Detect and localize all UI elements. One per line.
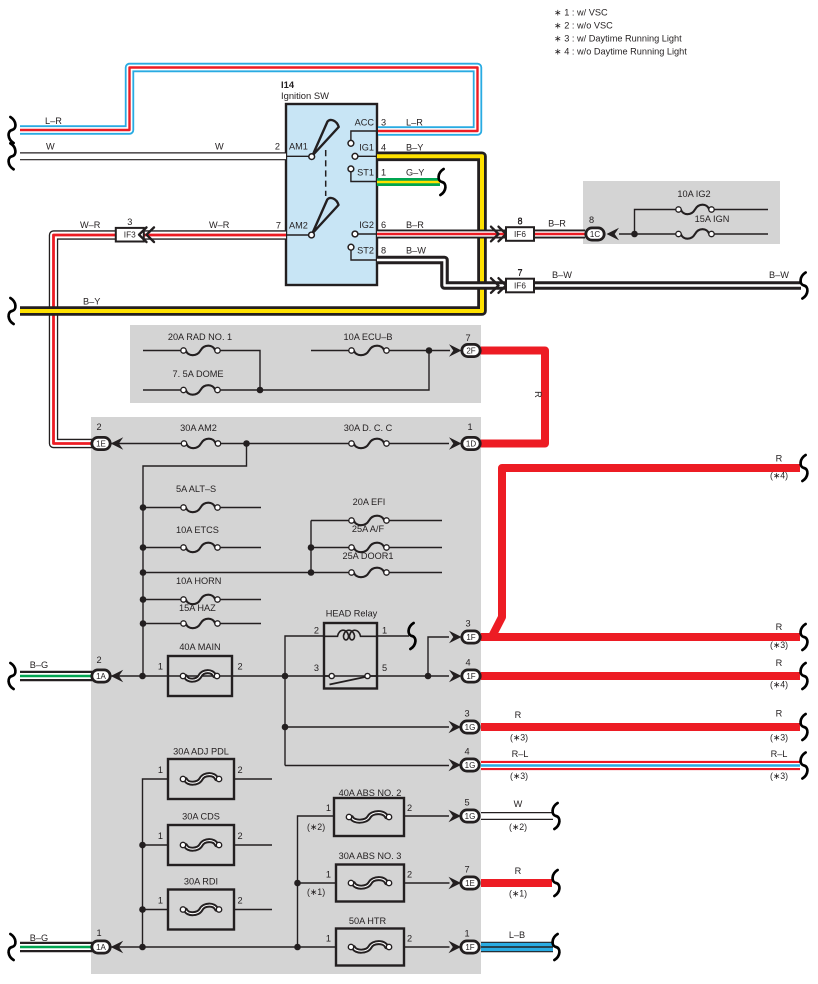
wire branch from AM2 fuse row down to fuse bus bbox=[143, 444, 247, 677]
ignition SW mechanical link (dashed) bbox=[325, 150, 327, 196]
junction ABS bus NO.3 bbox=[294, 880, 301, 887]
svg-text:1G: 1G bbox=[465, 761, 476, 770]
svg-text:1F: 1F bbox=[466, 633, 475, 642]
svg-text:7: 7 bbox=[276, 221, 281, 231]
svg-text:∗ 3 : w/ Daytime Running Light: ∗ 3 : w/ Daytime Running Light bbox=[554, 34, 682, 44]
svg-text:B–Y: B–Y bbox=[83, 297, 100, 307]
svg-text:1: 1 bbox=[382, 626, 387, 636]
svg-text:1D: 1D bbox=[466, 439, 476, 448]
wire R from connector 1G pin 3 to right edge (*3) bbox=[481, 723, 800, 731]
wire L-R from left edge to ACC pin 3 bbox=[20, 68, 478, 132]
junction bus bottom row bbox=[139, 944, 146, 951]
svg-text:4: 4 bbox=[465, 658, 470, 668]
arrow into 1G pin 3 bbox=[449, 721, 462, 733]
svg-text:10A IG2: 10A IG2 bbox=[677, 189, 710, 199]
svg-text:1: 1 bbox=[326, 934, 331, 944]
svg-text:B–W: B–W bbox=[406, 246, 426, 256]
svg-text:(∗2): (∗2) bbox=[509, 822, 527, 832]
svg-text:R: R bbox=[515, 866, 522, 876]
continuation mark R (*4) right bbox=[801, 455, 808, 481]
svg-text:1: 1 bbox=[158, 765, 163, 775]
svg-text:8: 8 bbox=[381, 246, 386, 256]
svg-text:(∗4): (∗4) bbox=[770, 471, 788, 481]
junction bus at 40A MAIN row bbox=[139, 673, 146, 680]
svg-text:3: 3 bbox=[465, 619, 470, 629]
svg-text:1: 1 bbox=[158, 662, 163, 672]
svg-text:R: R bbox=[533, 391, 543, 398]
continuation mark R (*4) lower right bbox=[801, 663, 808, 689]
junction ABS bus bottom bbox=[294, 944, 301, 951]
connector 1A pin 2 bbox=[92, 670, 110, 682]
continuation mark R-L right bbox=[801, 753, 808, 779]
svg-text:IG2: IG2 bbox=[359, 220, 374, 230]
fuse 5A ALT-S bbox=[181, 503, 220, 512]
wire DOME row bbox=[143, 351, 429, 391]
ignition SW rotor lever AM2 bbox=[312, 198, 338, 233]
wire 5A ALT-S row bbox=[143, 507, 261, 509]
wire 10A ETCS row bbox=[143, 547, 261, 549]
svg-text:1G: 1G bbox=[465, 723, 476, 732]
svg-text:B–W: B–W bbox=[552, 270, 572, 280]
HEAD relay contact blade bbox=[324, 676, 377, 685]
fuse 30A D.C.C bbox=[349, 439, 389, 448]
svg-text:B–R: B–R bbox=[548, 219, 566, 229]
svg-text:W: W bbox=[46, 142, 55, 152]
ignition SW ST2 contact stub bbox=[351, 250, 377, 260]
ignition SW ST2 contact bbox=[348, 244, 354, 250]
continuation mark B-Y left bbox=[9, 298, 16, 324]
ignition SW ST1 contact stub bbox=[351, 172, 377, 182]
relay HEAD Relay body bbox=[324, 623, 377, 689]
relay block box (10A IG2 / 15A IGN) bbox=[583, 181, 780, 244]
chevron into IF3 bbox=[139, 227, 154, 242]
svg-text:1F: 1F bbox=[466, 672, 475, 681]
junction 1G pin 3 branch bbox=[282, 724, 289, 731]
wire R from connector 1F pin 3 to right edge (*3) bbox=[481, 633, 800, 641]
fuse 15A HAZ bbox=[181, 619, 220, 628]
svg-text:W–R: W–R bbox=[80, 220, 101, 230]
wire EFI/AF/DOOR1 riser bbox=[310, 521, 312, 573]
wire R from connector 2F to connector 1D bbox=[481, 351, 545, 444]
connector 1D bbox=[462, 437, 480, 449]
svg-text:AM1: AM1 bbox=[289, 142, 308, 152]
wire B-G from left edge to connector 1A pin 2 bbox=[20, 671, 93, 682]
svg-text:8: 8 bbox=[517, 216, 522, 226]
junction relay pin 2 feed bbox=[282, 673, 289, 680]
connector 1C bbox=[586, 228, 604, 240]
svg-text:ST2: ST2 bbox=[357, 246, 374, 256]
svg-text:ST1: ST1 bbox=[357, 168, 374, 178]
svg-text:∗ 1 : w/ VSC: ∗ 1 : w/ VSC bbox=[554, 8, 608, 18]
ignition SW rotor lever AM1 bbox=[313, 120, 339, 155]
wire 40A ABS NO.2 output to 1G pin 5 bbox=[404, 815, 449, 817]
ignition SW AM1 contact bbox=[309, 154, 315, 160]
fuse 10A HORN bbox=[181, 595, 220, 604]
continuation mark R (*3) right bbox=[801, 624, 808, 650]
svg-text:1E: 1E bbox=[465, 879, 475, 888]
continuation mark R (*3) 1G right bbox=[801, 714, 808, 740]
fuse 10A IG2 bbox=[676, 205, 714, 214]
ignition SW ACC contact bbox=[348, 140, 354, 146]
wire R branch up to right edge (*4) bbox=[493, 468, 801, 636]
junction AM2 row bbox=[243, 440, 250, 447]
connector 1G pin 5 bbox=[461, 810, 479, 822]
svg-text:2: 2 bbox=[238, 831, 243, 841]
svg-text:3: 3 bbox=[127, 217, 132, 227]
wire B-G from left edge to connector 1A pin 1 bbox=[20, 942, 93, 953]
ignition SW AM1 contact stub bbox=[286, 155, 309, 157]
svg-text:IF6: IF6 bbox=[514, 229, 526, 239]
continuation mark W left bbox=[9, 143, 16, 169]
svg-text:30A ADJ PDL: 30A ADJ PDL bbox=[173, 747, 229, 757]
svg-text:R: R bbox=[776, 454, 783, 464]
svg-text:40A ABS NO. 2: 40A ABS NO. 2 bbox=[339, 788, 402, 798]
arrow into 1D bbox=[449, 437, 462, 449]
fusible link 50A HTR bbox=[336, 929, 404, 966]
ignition SW ACC contact stub bbox=[351, 131, 377, 140]
fusible link 30A RDI bbox=[168, 890, 234, 930]
fuse 7.5A DOME bbox=[181, 385, 220, 394]
wire HEAD relay pin 1 output bbox=[377, 635, 409, 637]
junction riser DOOR1 bbox=[308, 569, 315, 576]
svg-text:R–L: R–L bbox=[771, 749, 788, 759]
wire 30A ADJ PDL output stub bbox=[234, 778, 272, 780]
svg-text:(∗1): (∗1) bbox=[307, 887, 325, 897]
chevron into IF6 (B-W) bbox=[491, 278, 506, 293]
svg-text:R: R bbox=[776, 622, 783, 632]
arrow into 2F bbox=[449, 344, 462, 356]
HEAD relay contact pin 5 bbox=[365, 673, 370, 678]
svg-text:R: R bbox=[776, 658, 783, 668]
svg-text:W: W bbox=[215, 142, 224, 152]
junction at 1C branch bbox=[631, 231, 638, 238]
svg-text:2: 2 bbox=[407, 803, 412, 813]
svg-text:2F: 2F bbox=[466, 346, 475, 355]
fuse 15A IGN bbox=[676, 229, 714, 238]
svg-text:IF6: IF6 bbox=[514, 281, 526, 291]
arrow into 1F pin 1 bbox=[449, 941, 462, 953]
chevron into IF6 (B-R) bbox=[491, 227, 506, 242]
svg-text:4: 4 bbox=[464, 747, 469, 757]
junction bus ETCS bbox=[140, 544, 147, 551]
junction DOME/RAD bbox=[257, 387, 264, 394]
svg-text:L–B: L–B bbox=[509, 930, 525, 940]
connector IF6 (B-R row) bbox=[506, 217, 534, 241]
arrow out of 1C bbox=[607, 228, 620, 240]
continuation mark L-B bbox=[553, 934, 560, 960]
connector 1E pin 2 bbox=[92, 437, 110, 449]
svg-text:50A HTR: 50A HTR bbox=[349, 916, 387, 926]
svg-text:(∗3): (∗3) bbox=[770, 733, 788, 743]
svg-text:(∗1): (∗1) bbox=[509, 889, 527, 899]
wire 25A A/F row bbox=[311, 547, 442, 549]
connector 2F bbox=[462, 344, 480, 356]
wire relay pin 5 branch up to 1F pin 3 bbox=[428, 637, 449, 676]
wire 1E to 1D row (30A AM2 / 30A D.C.C) bbox=[111, 443, 449, 445]
fusible link 30A CDS bbox=[168, 825, 234, 865]
svg-text:B–G: B–G bbox=[30, 660, 48, 670]
svg-text:2: 2 bbox=[238, 662, 243, 672]
wire W from connector 1G pin 5 bbox=[481, 812, 553, 820]
svg-text:L–R: L–R bbox=[45, 116, 62, 126]
svg-text:30A CDS: 30A CDS bbox=[182, 812, 220, 822]
wire 40A ABS NO.2 feed bbox=[298, 816, 335, 947]
connector 1E pin 7 bbox=[461, 877, 479, 889]
fuse 20A EFI bbox=[349, 516, 389, 525]
continuation mark B-W right bbox=[801, 273, 808, 299]
svg-text:7: 7 bbox=[517, 268, 522, 278]
arrow out of 1A pin 1 bbox=[111, 941, 124, 953]
svg-text:B–G: B–G bbox=[30, 933, 48, 943]
svg-text:1: 1 bbox=[158, 831, 163, 841]
junction relay output bbox=[425, 673, 432, 680]
arrow out of 1E pin 2 bbox=[111, 437, 124, 449]
ignition SW AM2 contact bbox=[309, 232, 315, 238]
fusible link 40A MAIN bbox=[168, 656, 232, 696]
fuse 10A ETCS bbox=[181, 543, 220, 552]
wire B-Y from IG1 pin 4 to left edge bbox=[20, 156, 482, 311]
svg-text:25A A/F: 25A A/F bbox=[352, 524, 385, 534]
svg-text:1A: 1A bbox=[96, 672, 106, 681]
wire 30A ABS NO.3 row bbox=[298, 882, 450, 884]
junction bus CDS bbox=[139, 842, 146, 849]
svg-text:L–R: L–R bbox=[406, 118, 423, 128]
svg-text:∗ 4 : w/o Daytime Running Ligh: ∗ 4 : w/o Daytime Running Light bbox=[554, 47, 687, 57]
svg-text:5: 5 bbox=[464, 798, 469, 808]
svg-text:5: 5 bbox=[382, 663, 387, 673]
fusible link 30A ABS NO.3 bbox=[336, 865, 404, 902]
svg-text:ACC: ACC bbox=[355, 118, 375, 128]
fuse 10A ECU-B bbox=[349, 346, 389, 355]
ignition SW AM2 contact stub bbox=[286, 234, 309, 236]
svg-text:1E: 1E bbox=[96, 439, 106, 448]
wire R from connector 1F pin 4 to right edge (*4) bbox=[481, 672, 800, 680]
relay block box (RAD / DOME / ECU-B fuses) bbox=[130, 325, 481, 403]
fuse 30A AM2 bbox=[181, 439, 220, 448]
svg-text:7. 5A DOME: 7. 5A DOME bbox=[172, 369, 223, 379]
svg-text:R–L: R–L bbox=[512, 749, 529, 759]
svg-text:30A AM2: 30A AM2 bbox=[180, 423, 217, 433]
arrow into 1G pin 5 bbox=[449, 810, 462, 822]
svg-text:(∗3): (∗3) bbox=[770, 640, 788, 650]
wire ECU-B row to 2F bbox=[311, 350, 450, 352]
svg-text:W: W bbox=[514, 799, 523, 809]
wire 1A to HEAD relay row (40A MAIN) bbox=[111, 675, 449, 677]
wire 20A EFI row bbox=[311, 520, 442, 522]
svg-text:20A EFI: 20A EFI bbox=[353, 497, 386, 507]
svg-text:1: 1 bbox=[467, 422, 472, 432]
junction bus DOOR1 bbox=[140, 569, 147, 576]
connector 1F pin 1 bbox=[461, 941, 479, 953]
svg-text:6: 6 bbox=[381, 220, 386, 230]
wire R from connector 1E pin 7 (*1) bbox=[481, 879, 552, 887]
wire L-B from connector 1F pin 1 bbox=[481, 942, 553, 953]
junction bus HORN bbox=[140, 596, 147, 603]
svg-text:4: 4 bbox=[381, 143, 386, 153]
wire HEAD relay coil pin 2 feed bbox=[285, 636, 324, 676]
wire 15A HAZ row bbox=[143, 623, 261, 625]
continuation mark B-G lower left bbox=[9, 934, 16, 960]
svg-text:IF3: IF3 bbox=[124, 230, 136, 240]
svg-text:2: 2 bbox=[96, 655, 101, 665]
svg-text:HEAD Relay: HEAD Relay bbox=[326, 609, 378, 619]
wire branch up to 10A IG2 bbox=[635, 210, 769, 235]
continuation mark R (*1) bbox=[553, 870, 560, 896]
svg-text:20A RAD NO. 1: 20A RAD NO. 1 bbox=[168, 332, 232, 342]
wire 50A HTR row bbox=[111, 946, 450, 948]
ignition SW IG1 contact stub bbox=[358, 155, 377, 157]
arrow into 1F pin 3 bbox=[449, 631, 462, 643]
fusible link 40A ABS NO.2 bbox=[334, 798, 404, 836]
svg-text:2: 2 bbox=[407, 934, 412, 944]
connector IF6 (B-W row) bbox=[506, 268, 534, 292]
continuation mark L-R left bbox=[9, 117, 16, 143]
svg-text:30A D. C. C: 30A D. C. C bbox=[344, 423, 393, 433]
svg-text:3: 3 bbox=[464, 709, 469, 719]
svg-text:1C: 1C bbox=[590, 230, 600, 239]
svg-text:1: 1 bbox=[381, 168, 386, 178]
connector 1A pin 1 bbox=[92, 941, 110, 953]
continuation mark W (*2) bbox=[553, 803, 560, 829]
connector IF3 bbox=[116, 217, 144, 241]
arrow into 1F pin 4 bbox=[449, 670, 462, 682]
svg-text:B–W: B–W bbox=[769, 270, 789, 280]
svg-text:7: 7 bbox=[464, 865, 469, 875]
svg-text:2: 2 bbox=[238, 765, 243, 775]
connector 1G pin 3 bbox=[461, 721, 479, 733]
svg-text:40A MAIN: 40A MAIN bbox=[179, 642, 220, 652]
junction bus HAZ bbox=[140, 620, 147, 627]
wire W-R from AM2 pin 7 to connector 1E bbox=[54, 235, 287, 444]
svg-text:3: 3 bbox=[314, 663, 319, 673]
svg-text:R: R bbox=[515, 710, 522, 720]
svg-text:2: 2 bbox=[96, 422, 101, 432]
svg-text:1: 1 bbox=[326, 803, 331, 813]
arrow out of 1A pin 2 bbox=[111, 670, 124, 682]
continuation mark relay pin1 bbox=[409, 623, 416, 649]
svg-text:10A ECU–B: 10A ECU–B bbox=[343, 332, 392, 342]
arrow into 1G pin 4 bbox=[449, 759, 462, 771]
svg-text:25A DOOR1: 25A DOOR1 bbox=[342, 551, 393, 561]
svg-text:2: 2 bbox=[238, 896, 243, 906]
wire to 1G pin 3 bbox=[285, 726, 449, 728]
fuse 25A A/F bbox=[349, 543, 389, 552]
svg-text:10A HORN: 10A HORN bbox=[176, 576, 221, 586]
arrow into 1E pin 7 bbox=[449, 877, 462, 889]
svg-text:W–R: W–R bbox=[209, 220, 230, 230]
svg-text:1: 1 bbox=[326, 870, 331, 880]
svg-text:1G: 1G bbox=[465, 812, 476, 821]
wire B-R from IG2 pin 6 to connector 1C bbox=[377, 230, 585, 239]
wire 1C to fuses 10A IG2 / 15A IGN bbox=[619, 233, 768, 235]
connector 1F pin 4 bbox=[462, 670, 480, 682]
svg-text:AM2: AM2 bbox=[289, 221, 308, 231]
ignition SW ST1 contact bbox=[348, 166, 354, 172]
wire R-L from connector 1G pin 4 to right edge (*3) bbox=[481, 761, 800, 770]
fusible link 30A ADJ PDL bbox=[168, 759, 234, 799]
wire bottom bus feeding ADJ PDL / CDS / RDI bbox=[143, 779, 169, 947]
ignition SW IG1 contact bbox=[352, 153, 358, 159]
svg-text:B–Y: B–Y bbox=[406, 143, 423, 153]
svg-text:30A ABS NO. 3: 30A ABS NO. 3 bbox=[339, 851, 402, 861]
wire B-W from ST2 pin 8 to right edge bbox=[377, 260, 801, 286]
junction bus RDI bbox=[139, 906, 146, 913]
continuation mark B-G upper left bbox=[9, 663, 16, 689]
HEAD relay coil bbox=[324, 630, 377, 640]
ignition SW IG2 contact stub bbox=[358, 233, 377, 235]
svg-text:2: 2 bbox=[275, 142, 280, 152]
svg-text:IG1: IG1 bbox=[359, 143, 374, 153]
svg-text:3: 3 bbox=[381, 118, 386, 128]
ignition SW IG2 contact bbox=[352, 231, 358, 237]
junction ECU-B/DOME riser bbox=[426, 347, 433, 354]
wire RAD NO.1 row bbox=[143, 351, 260, 391]
svg-text:(∗3): (∗3) bbox=[510, 733, 528, 743]
connector 1F pin 3 bbox=[462, 631, 480, 643]
continuation mark G-Y bbox=[439, 169, 446, 195]
svg-text:1F: 1F bbox=[465, 943, 474, 952]
svg-text:7: 7 bbox=[465, 333, 470, 343]
svg-text:10A ETCS: 10A ETCS bbox=[176, 525, 219, 535]
wire bus down to 1G rows bbox=[284, 676, 286, 766]
svg-text:5A ALT–S: 5A ALT–S bbox=[176, 484, 216, 494]
wire 30A RDI row bbox=[143, 909, 273, 911]
svg-text:R: R bbox=[776, 709, 783, 719]
fuse 25A DOOR1 bbox=[349, 568, 389, 577]
svg-text:8: 8 bbox=[589, 215, 594, 225]
svg-text:1: 1 bbox=[464, 929, 469, 939]
svg-text:15A HAZ: 15A HAZ bbox=[179, 603, 216, 613]
svg-text:15A IGN: 15A IGN bbox=[695, 214, 730, 224]
svg-text:(∗3): (∗3) bbox=[770, 771, 788, 781]
junction riser A/F bbox=[308, 544, 315, 551]
svg-text:1: 1 bbox=[96, 928, 101, 938]
svg-text:2: 2 bbox=[314, 626, 319, 636]
svg-text:1: 1 bbox=[158, 896, 163, 906]
svg-text:B–R: B–R bbox=[406, 220, 424, 230]
main fuse/relay block box bbox=[91, 417, 481, 974]
svg-text:2: 2 bbox=[407, 870, 412, 880]
svg-text:1A: 1A bbox=[96, 943, 106, 952]
svg-text:30A RDI: 30A RDI bbox=[184, 877, 218, 887]
wire G-Y from ST1 pin 1 bbox=[377, 178, 440, 186]
connector 1G pin 4 bbox=[461, 759, 479, 771]
wire 25A DOOR1 row bbox=[143, 572, 442, 574]
svg-text:(∗3): (∗3) bbox=[510, 771, 528, 781]
svg-text:(∗4): (∗4) bbox=[770, 680, 788, 690]
fuse 20A RAD NO.1 bbox=[181, 346, 220, 355]
svg-text:G–Y: G–Y bbox=[406, 168, 424, 178]
wire to 1G pin 4 bbox=[285, 765, 449, 767]
svg-text:I14: I14 bbox=[281, 79, 295, 90]
ignition switch I14 body bbox=[286, 104, 377, 285]
svg-text:Ignition SW: Ignition SW bbox=[281, 90, 329, 101]
svg-text:∗ 2 : w/o VSC: ∗ 2 : w/o VSC bbox=[554, 21, 613, 31]
wire 30A CDS row bbox=[143, 844, 273, 846]
junction bus ALT-S bbox=[140, 504, 147, 511]
wire 10A HORN row bbox=[143, 599, 261, 601]
svg-text:(∗2): (∗2) bbox=[307, 822, 325, 832]
HEAD relay contact pin 3 bbox=[329, 673, 334, 678]
wire W from left edge to AM1 pin 2 bbox=[20, 152, 286, 160]
